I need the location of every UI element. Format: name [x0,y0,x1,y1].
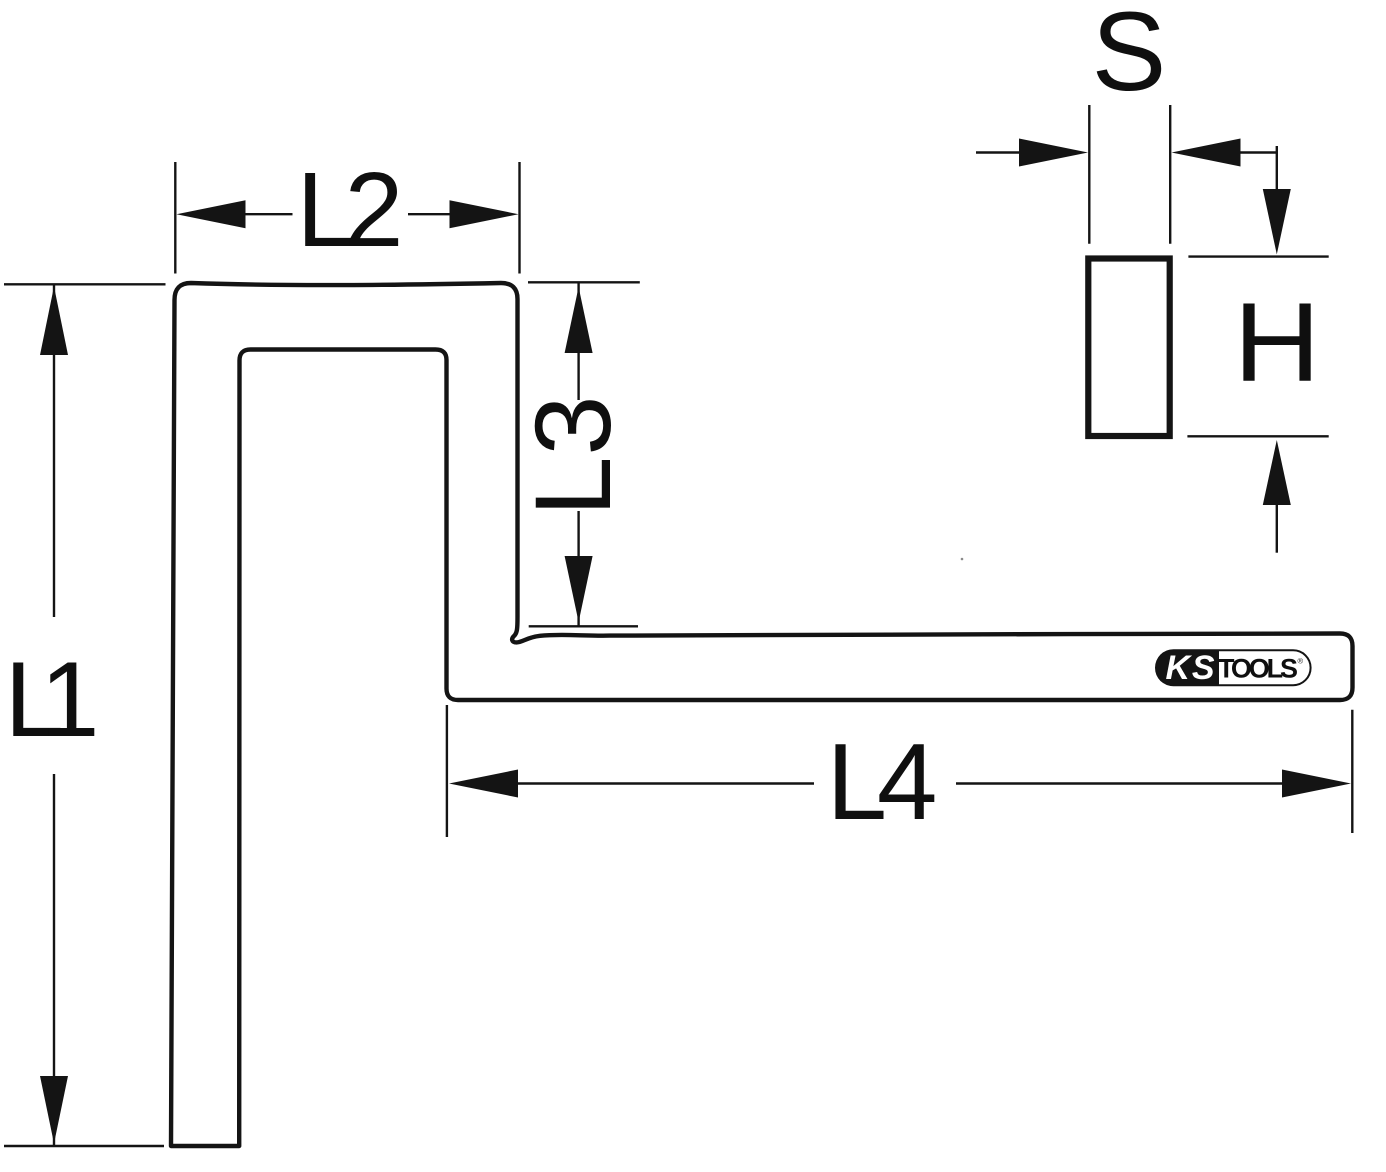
dimension L4 [447,705,1352,837]
svg-text:L4: L4 [827,721,938,843]
svg-text:TOOLS: TOOLS [1218,654,1298,684]
L1 top tick [4,283,166,285]
L4 right extension line [1351,710,1353,833]
svg-text:H: H [1234,280,1321,405]
H upper arrow [1276,146,1278,192]
S right arrow [1172,139,1241,167]
S right extension line [1169,105,1171,244]
dimension L2 [175,162,519,274]
S left extension line [1088,105,1090,244]
stray speck artifact [961,558,964,561]
svg-text:S: S [1092,0,1167,114]
logo pill outline [1156,650,1311,685]
L2 left extension line [174,162,176,274]
L3 top tick [528,281,640,283]
L2 right arrow [408,213,452,215]
S left arrow [976,151,1022,153]
dimension L1 [4,284,166,1146]
L4 right arrow [956,782,1285,784]
L4 left extension line [446,705,448,837]
H lower arrow [1263,440,1291,505]
L1 down arrow [53,774,55,1146]
dimension L3 [528,282,640,626]
cross-section rectangle [1088,259,1169,437]
svg-text:L3: L3 [512,396,633,517]
dimension H [1187,146,1328,553]
L3 down arrow [577,511,579,626]
dimension S [976,105,1277,244]
H bottom line [1187,435,1328,437]
svg-text:L1: L1 [5,639,100,759]
svg-text:®: ® [1298,657,1304,666]
L4 left arrow [449,770,518,798]
L2 right extension line [518,162,520,274]
H top line [1188,255,1328,257]
tool outline (Z-shaped wrench body) [171,283,1353,1146]
svg-text:L2: L2 [297,151,404,269]
KS TOOLS logo [1156,649,1311,687]
L3 up arrow [565,287,593,353]
L2 left arrow [177,200,246,228]
L1 up arrow [40,287,68,356]
L3 bottom tick [529,625,638,627]
L1 bottom tick [4,1145,164,1147]
logo black left half [1156,650,1219,685]
